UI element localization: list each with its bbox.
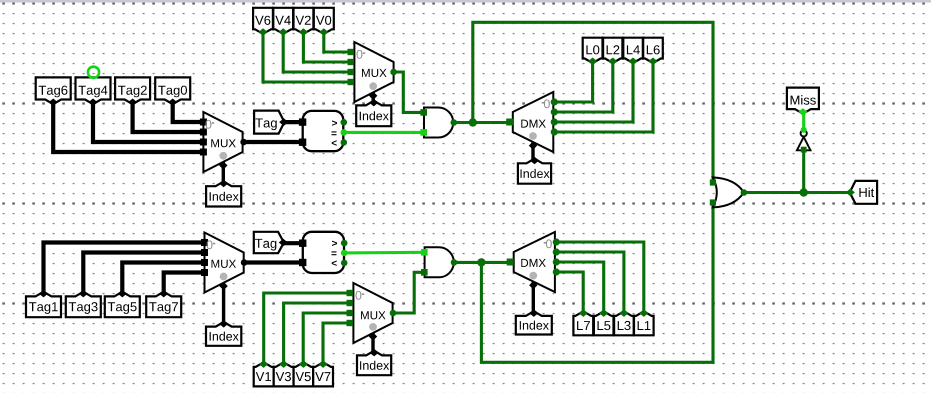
wire Tag1 to MUX2 input 1 [44,243,205,295]
output L4 [623,38,643,65]
wire MUX U5 output to AND gate U7 input 1 [394,72,424,112]
multiplexer U6 [353,283,392,343]
wire Tag label to comparator U4 input A [283,241,303,245]
wire junction to NOT gate U12 input [802,150,805,192]
wire DMX U10 output 2 to L5 [555,262,604,314]
input Tag lower [254,232,288,253]
input Tag4 [76,77,111,106]
output L2 [603,38,622,65]
junction on Hit wire [800,188,808,196]
wire V4 to MUX U5 input 3 [283,30,354,72]
wire DMX U10 output 3 to L7 [555,272,583,314]
wire Tag3 to MUX2 input 2 [83,253,204,295]
wire V1 to MUX U6 input 1 [264,293,354,364]
wire MUX2 output to comparator U4 input B [244,260,303,264]
input Tag3 [66,290,101,317]
probe marker circle above Tag4 [88,67,99,78]
input V4 [273,8,293,36]
demultiplexer U10 [514,232,555,292]
wire V7 to MUX U6 input 4 [323,323,353,364]
wire Tag5 to MUX2 input 3 [122,263,204,295]
label Index of DMX U10 [516,309,552,334]
input Tag upper [254,111,288,134]
output L1 [634,309,654,335]
wire V5 to MUX U6 input 3 [303,313,353,364]
wire DMX U8 output 2 to L4 [553,60,633,122]
input V6 [253,8,273,36]
wire AND gate U9 output to DMX U10 input [454,261,514,264]
input V1 [254,360,274,386]
wire MUX U6 output to AND gate U9 input 2 [393,272,425,313]
wire V3 to MUX U6 input 2 [284,303,354,364]
wire Tag4 to MUX1 input 3 [93,100,203,142]
output L5 [594,309,614,335]
input V0 [314,8,334,36]
wire Tag7 to MUX2 input 4 [164,273,205,295]
wire bottom rail junction to OR gate U11 input 2 [481,205,713,362]
wire DMX U8 output 3 to L6 [553,60,653,132]
wire Tag0 to MUX1 input 1 [173,100,204,122]
output L0 [583,38,603,65]
wire DMX U10 output 0 to L1 [555,242,644,314]
wire V0 to MUX U5 input 1 [324,30,355,52]
input V3 [274,360,294,386]
label Index of MUX U5 [356,99,391,126]
output Hit [846,181,877,204]
wire comparator U3 equals output to AND gate U7 input 2 [344,131,424,134]
and gate U7 [424,108,453,138]
wire Tag6 to MUX1 input 4 [53,100,203,152]
input Tag7 [146,290,181,317]
or gate U11 [713,177,744,207]
input V2 [294,8,314,36]
wire V2 to MUX U5 input 2 [303,30,354,62]
and gate U9 [425,247,454,277]
input V5 [294,360,314,386]
wire NOT gate U12 output to Miss [802,110,805,130]
input Tag2 [115,77,150,106]
output L7 [573,309,593,335]
wire MUX1 output to comparator U3 input B [244,140,303,144]
output Miss [787,88,819,116]
input Tag5 [105,290,140,317]
wire Tag2 to MUX1 input 2 [133,100,204,132]
demultiplexer U8 [513,92,554,152]
label Index of MUX2 [206,320,241,346]
comparator U3 [303,111,344,151]
input Tag0 [155,77,190,106]
label Index of DMX U8 [518,157,551,184]
label Index of MUX1 [206,180,241,207]
wire OR gate U11 output to Hit [744,191,853,194]
wire AND gate U7 output to DMX U8 input [454,121,513,124]
input Tag6 [36,77,71,106]
multiplexer U5 [354,42,393,102]
output L6 [643,38,663,65]
output L3 [614,309,634,335]
input V7 [313,360,333,386]
multiplexer MUX2 [205,233,244,293]
comparator U4 [303,232,344,273]
wire top rail junction to OR gate U11 input 1 [473,22,713,180]
label Index of MUX U6 [357,349,391,375]
wire DMX U8 output 1 to L2 [553,60,613,112]
wire Tag label to comparator U3 input A [283,120,303,124]
multiplexer MUX1 [203,112,242,172]
junction on AND U9 output wire [477,258,485,266]
wire comparator U4 equals output to AND gate U9 input 1 [344,251,424,255]
window top edge bar [0,0,931,3]
wire V6 to MUX U5 input 4 [263,30,354,82]
junction on AND U7 output wire [469,118,477,126]
input Tag1 [26,290,61,317]
wire DMX U8 output 0 to L0 [553,60,593,102]
not gate U12 [797,137,811,150]
wire DMX U10 output 1 to L3 [555,252,624,314]
